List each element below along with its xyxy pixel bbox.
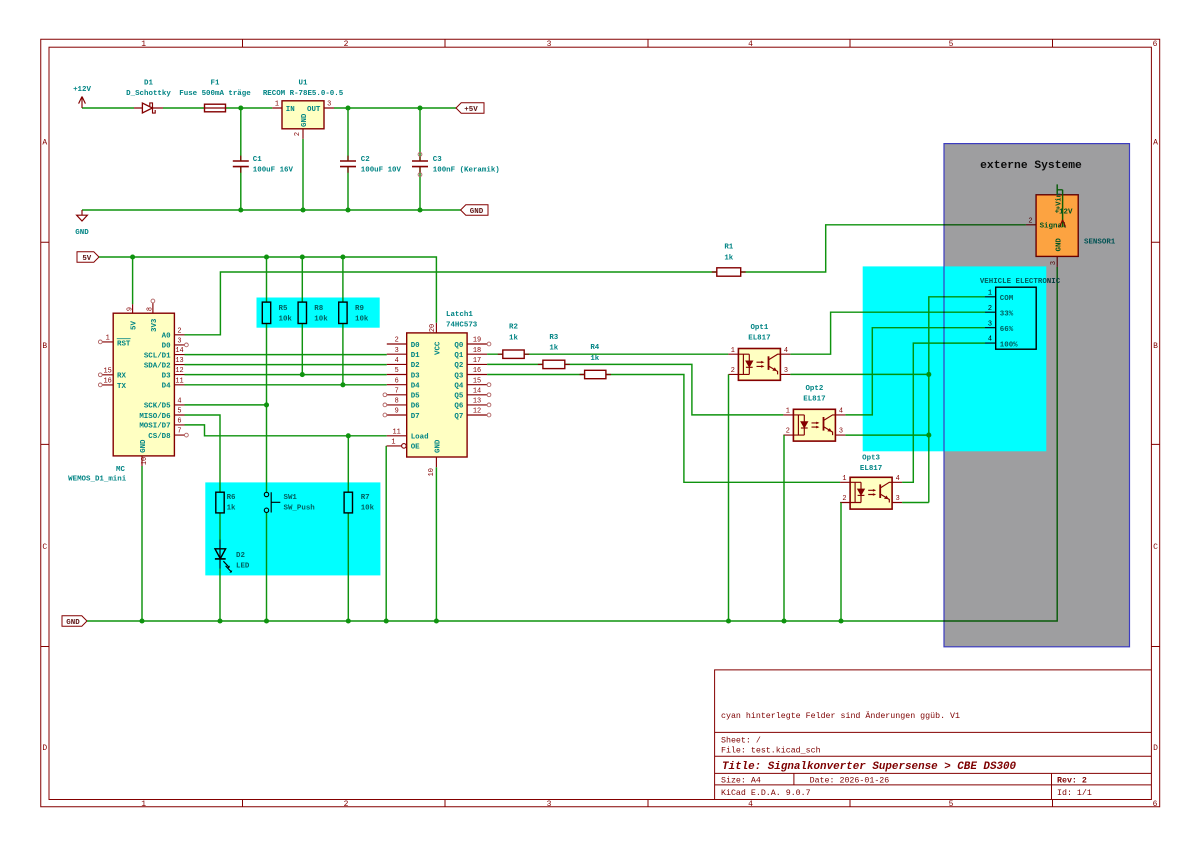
svg-text:1k: 1k [724, 254, 733, 262]
svg-text:10k: 10k [279, 316, 293, 324]
svg-text:12: 12 [175, 367, 183, 375]
resistor R7 [344, 492, 375, 513]
power symbol GND top-left [75, 210, 89, 237]
svg-text:2: 2 [395, 337, 399, 345]
wire A0 net to R1 [185, 225, 1026, 335]
svg-text:5: 5 [177, 408, 181, 416]
wire Opt2 pin3 to COM column [845, 434, 928, 436]
svg-text:3: 3 [395, 347, 399, 355]
global label GND right [461, 205, 488, 216]
svg-text:14: 14 [473, 387, 481, 395]
wire latch Q2 to R3 to Opt2 [487, 364, 783, 415]
svg-text:7: 7 [177, 428, 181, 436]
svg-text:F1: F1 [211, 79, 220, 87]
wire Opt3 pin2 to gnd [840, 503, 842, 622]
svg-text:1: 1 [988, 289, 992, 297]
svg-text:GND: GND [1055, 238, 1063, 252]
svg-text:5: 5 [949, 800, 954, 809]
svg-text:RECOM R-78E5.0-0.5: RECOM R-78E5.0-0.5 [263, 90, 344, 98]
svg-text:Q1: Q1 [454, 352, 463, 360]
svg-text:SW1: SW1 [284, 494, 298, 502]
svg-text:1: 1 [842, 475, 846, 483]
latch left pins [387, 344, 407, 446]
svg-text:3: 3 [547, 800, 552, 809]
svg-text:100uF 16V: 100uF 16V [253, 167, 294, 175]
Opt1 internal LED [738, 354, 749, 374]
power symbol +12V [73, 86, 91, 108]
svg-text:3: 3 [784, 367, 788, 375]
title block outline [715, 670, 1152, 800]
Opt2 phototransistor [823, 417, 825, 431]
connector J vehicle electronic [980, 278, 1061, 349]
svg-text:OE: OE [411, 444, 420, 452]
regulator U1 RECOM R-78E5.0-0.5 [263, 79, 344, 139]
svg-text:Q2: Q2 [454, 362, 463, 370]
Opt3 coupling arrows [868, 490, 875, 494]
svg-text:RST: RST [117, 340, 131, 348]
svg-text:Fuse 500mA träge: Fuse 500mA träge [179, 90, 251, 98]
wire OE down to GND rail [385, 446, 387, 621]
svg-text:3: 3 [327, 101, 331, 109]
resistor R6 [216, 492, 236, 513]
svg-text:12: 12 [473, 408, 481, 416]
svg-text:4: 4 [748, 40, 753, 49]
capacitor C1 [233, 156, 294, 175]
svg-text:3: 3 [988, 320, 992, 328]
svg-text:100%: 100% [1000, 342, 1018, 350]
wire Opt1 pin2 to gnd [728, 374, 730, 621]
svg-text:C3: C3 [433, 156, 442, 164]
zone ticks right [1151, 242, 1159, 646]
cyan highlight vehicle electronic [863, 266, 1047, 451]
svg-text:R9: R9 [355, 305, 364, 313]
svg-text:Sheet: /: Sheet: / [721, 736, 761, 746]
wemos left pins 1 15 16 [102, 342, 113, 385]
svg-text:A: A [42, 139, 47, 148]
svg-text:OUT: OUT [307, 106, 321, 114]
resistor R8 [298, 302, 328, 323]
latch bottom pin 10 [435, 457, 437, 467]
wemos top pins 9 and 8 [133, 303, 153, 313]
wire SW1 bottom to gnd [266, 513, 268, 621]
wire latch GND pin down [435, 467, 437, 621]
Opt1 body [738, 349, 780, 381]
svg-text:1k: 1k [509, 334, 518, 342]
svg-text:EL817: EL817 [748, 334, 770, 342]
svg-text:D6: D6 [411, 403, 420, 411]
resistor R1 [712, 244, 746, 277]
Opt1 coupling arrows [757, 362, 764, 366]
svg-text:D4: D4 [162, 383, 171, 391]
svg-text:100uF 10V: 100uF 10V [361, 167, 402, 175]
svg-text:2: 2 [294, 132, 302, 136]
zone ticks bottom [243, 800, 1053, 807]
wire COM net [929, 297, 985, 503]
svg-text:4: 4 [748, 800, 753, 809]
wire latch Q3 to R4 to Opt3 [487, 375, 840, 483]
junction dots GND rail [139, 618, 144, 623]
title block column lines [794, 773, 1052, 799]
wemos bottom pin 10 [141, 456, 143, 466]
svg-text:Opt1: Opt1 [750, 324, 768, 332]
capacitor C2 [340, 156, 402, 175]
wire latch Q1 to R2 to Opt1 [487, 353, 728, 355]
svg-text:3: 3 [1050, 261, 1058, 265]
svg-text:R4: R4 [590, 344, 599, 352]
svg-text:+Vin: +Vin [1056, 193, 1064, 210]
svg-text:R3: R3 [549, 334, 558, 342]
svg-text:D0: D0 [162, 343, 171, 351]
TITLEBLOCK [715, 670, 1152, 800]
svg-text:cyan hinterlegte Felder sind Ä: cyan hinterlegte Felder sind Änderungen … [721, 711, 960, 721]
svg-text:MISO/D6: MISO/D6 [139, 413, 171, 421]
svg-text:+5V: +5V [464, 106, 478, 114]
Opt1 pin stubs 1 2 4 3 [728, 354, 790, 374]
svg-text:18: 18 [473, 347, 481, 355]
wire C3 drop [419, 108, 421, 210]
sensor SENSOR1 orange body fill [1036, 195, 1078, 257]
svg-text:GND: GND [66, 619, 80, 627]
zone ticks top [243, 39, 1053, 47]
svg-text:5: 5 [949, 40, 954, 49]
sensor SENSOR1 [1026, 184, 1116, 267]
svg-text:7: 7 [395, 387, 399, 395]
svg-text:Q7: Q7 [454, 413, 463, 421]
svg-text:COM: COM [1000, 295, 1014, 303]
svg-text:C: C [42, 543, 47, 552]
svg-text:1: 1 [106, 335, 110, 343]
wire D3 to latch D3 [185, 374, 387, 376]
wire R9 column top [342, 257, 344, 302]
svg-text:GND: GND [470, 208, 484, 216]
svg-text:17: 17 [473, 357, 481, 365]
svg-text:11: 11 [393, 428, 401, 436]
power symbol +12V at sensor [1060, 220, 1066, 227]
svg-text:A0: A0 [162, 333, 171, 341]
svg-text:A: A [1153, 139, 1158, 148]
wire Opt2 pin4 to 66pct [845, 328, 985, 415]
svg-text:R7: R7 [361, 494, 370, 502]
svg-text:10k: 10k [314, 316, 328, 324]
svg-text:9: 9 [126, 307, 134, 311]
svg-text:SENSOR1: SENSOR1 [1084, 239, 1116, 247]
wire C2 drop [347, 108, 349, 210]
wire R8 column top [301, 257, 303, 302]
svg-text:SW_Push: SW_Push [284, 505, 316, 513]
svg-text:1: 1 [141, 40, 146, 49]
sensor pin 1 +Vin [1057, 184, 1062, 227]
svg-text:externe Systeme: externe Systeme [980, 160, 1082, 172]
svg-text:2: 2 [1028, 217, 1032, 225]
svg-text:C1: C1 [253, 156, 262, 164]
svg-text:Opt3: Opt3 [862, 454, 880, 462]
Opt3 body [850, 477, 892, 509]
svg-text:EL817: EL817 [803, 396, 825, 404]
svg-text:3: 3 [896, 495, 900, 503]
diode D1 D_Schottky [126, 79, 171, 113]
svg-text:Q0: Q0 [454, 342, 463, 350]
wire SCK/D5 to R5 column [185, 404, 267, 406]
cyan highlight R6 SW1 R7 D2 [205, 482, 380, 575]
svg-text:WEMOS_D1_mini: WEMOS_D1_mini [68, 476, 127, 484]
fuse F1 [179, 79, 251, 111]
junction dots power section [238, 105, 243, 110]
svg-text:GND: GND [75, 229, 89, 237]
svg-text:Latch1: Latch1 [446, 311, 473, 319]
svg-text:GND: GND [434, 439, 442, 453]
svg-text:D3: D3 [411, 372, 420, 380]
svg-text:D: D [1153, 744, 1158, 753]
svg-text:RX: RX [117, 373, 126, 381]
resistor R9 [339, 302, 369, 323]
svg-text:D2: D2 [411, 362, 420, 370]
svg-text:TX: TX [117, 383, 126, 391]
Opt3 phototransistor [879, 484, 881, 498]
svg-text:D3: D3 [162, 372, 171, 380]
wire Opt3 pin4 to 100pct [902, 343, 985, 482]
svg-text:19: 19 [473, 337, 481, 345]
svg-text:16: 16 [104, 378, 112, 386]
wire Opt1 pin4 to 33pct [790, 312, 985, 354]
wire wemos GND pin down [141, 466, 143, 621]
svg-text:GND: GND [140, 439, 148, 453]
cyan highlight R5 R8 R9 [257, 298, 380, 328]
svg-text:1k: 1k [590, 355, 599, 363]
Opt2 coupling arrows [812, 423, 819, 427]
svg-text:1k: 1k [549, 345, 558, 353]
global label GND bottom-left [62, 616, 87, 627]
svg-text:66%: 66% [1000, 326, 1014, 334]
microcontroller MC WEMOS_D1_mini [68, 299, 188, 484]
svg-text:2: 2 [988, 305, 992, 313]
svg-text:15: 15 [473, 377, 481, 385]
svg-text:R1: R1 [724, 244, 733, 252]
junction dots COM net [926, 372, 931, 377]
svg-text:4: 4 [784, 347, 788, 355]
wire U1 pin2 to gnd [302, 139, 304, 210]
optocoupler Opt1 EL817 [728, 324, 790, 381]
led D2 [215, 540, 250, 573]
svg-text:R2: R2 [509, 324, 518, 332]
svg-text:C2: C2 [361, 156, 370, 164]
svg-text:2: 2 [344, 800, 349, 809]
svg-text:1: 1 [391, 439, 395, 447]
svg-text:74HC573: 74HC573 [446, 321, 478, 329]
svg-text:D1: D1 [144, 79, 153, 87]
Opt3 internal LED [850, 482, 861, 502]
wire R7 bottom to gnd [347, 513, 349, 621]
svg-text:6: 6 [395, 377, 399, 385]
latch Latch1 74HC573 [383, 311, 491, 476]
svg-text:20: 20 [429, 324, 437, 332]
svg-text:B: B [1153, 342, 1158, 351]
wire D4 to latch D4 [185, 384, 387, 386]
Opt2 internal LED [793, 415, 804, 435]
svg-text:11: 11 [175, 377, 183, 385]
svg-text:VEHICLE ELECTRONIC: VEHICLE ELECTRONIC [980, 278, 1061, 286]
global label 5V [77, 252, 99, 263]
wire R5 column down to SW1 [266, 324, 268, 493]
wire latch Load row to R7 [347, 436, 349, 492]
Opt2 body [793, 409, 835, 441]
svg-text:10: 10 [428, 468, 436, 476]
svg-text:D7: D7 [411, 413, 420, 421]
svg-text:4: 4 [839, 408, 843, 416]
wire Opt2 pin2 to gnd [783, 435, 785, 621]
svg-text:15: 15 [104, 367, 112, 375]
svg-text:3: 3 [547, 40, 552, 49]
sensor pin 3 GND [1056, 256, 1058, 267]
svg-text:Opt2: Opt2 [805, 385, 823, 393]
svg-text:R5: R5 [279, 305, 288, 313]
svg-text:Size: A4: Size: A4 [721, 776, 761, 786]
svg-text:D4: D4 [411, 383, 420, 391]
svg-text:1k: 1k [227, 505, 236, 513]
svg-text:4: 4 [988, 336, 992, 344]
svg-text:D: D [42, 744, 47, 753]
svg-text:IN: IN [286, 106, 295, 114]
svg-text:2: 2 [786, 428, 790, 436]
svg-text:D0: D0 [411, 342, 420, 350]
svg-text:33%: 33% [1000, 311, 1014, 319]
optocoupler Opt3 EL817 [840, 454, 902, 509]
junction dots data rows [300, 372, 305, 377]
svg-text:Q5: Q5 [454, 393, 463, 401]
switch SW1 SW_Push [264, 492, 315, 512]
svg-text:Rev: 2: Rev: 2 [1057, 777, 1087, 786]
svg-text:10k: 10k [355, 316, 369, 324]
svg-text:D5: D5 [411, 393, 420, 401]
sensor pin 2 Signal [1026, 224, 1036, 226]
svg-text:Id: 1/1: Id: 1/1 [1057, 788, 1092, 798]
svg-text:2: 2 [842, 495, 846, 503]
svg-text:R8: R8 [314, 305, 323, 313]
global label +5V [456, 103, 484, 114]
svg-text:2: 2 [177, 327, 181, 335]
svg-text:Date: 2026-01-26: Date: 2026-01-26 [810, 777, 890, 786]
capacitor C3 [412, 153, 500, 177]
wire SCL/D1 to latch D1 [185, 354, 387, 356]
wire R5 column top [266, 257, 268, 302]
svg-text:+12V: +12V [1055, 209, 1073, 217]
wire MOSI/D7 to latch Load [185, 425, 387, 436]
svg-text:13: 13 [473, 398, 481, 406]
svg-text:2: 2 [731, 367, 735, 375]
svg-text:MOSI/D7: MOSI/D7 [139, 423, 170, 431]
externe Systeme blue border [944, 144, 1130, 647]
svg-text:U1: U1 [299, 79, 308, 87]
wire C1 drop [240, 108, 242, 210]
svg-text:D_Schottky: D_Schottky [126, 90, 171, 98]
svg-text:8: 8 [395, 398, 399, 406]
wire R9 to D4 row [342, 324, 344, 385]
svg-text:14: 14 [175, 347, 183, 355]
junction dots 5V rail [130, 254, 135, 259]
wire 5V rail [99, 257, 436, 323]
wire Opt3 pin3 to COM column [902, 502, 929, 504]
svg-text:4: 4 [395, 357, 399, 365]
svg-text:1: 1 [141, 800, 146, 809]
svg-text:1: 1 [786, 408, 790, 416]
svg-text:C: C [1153, 543, 1158, 552]
svg-text:EL817: EL817 [860, 465, 882, 473]
latch right pins [467, 344, 487, 415]
svg-text:5V: 5V [82, 255, 91, 263]
svg-text:8: 8 [147, 307, 155, 311]
title block row lines [715, 732, 1152, 785]
svg-text:CS/D8: CS/D8 [148, 433, 171, 441]
Opt2 pin stubs 1 2 4 3 [783, 415, 845, 435]
svg-text:D1: D1 [411, 352, 420, 360]
resistor R5 [262, 302, 292, 323]
svg-text:2: 2 [344, 40, 349, 49]
svg-text:D2: D2 [236, 552, 245, 560]
svg-text:3: 3 [839, 428, 843, 436]
svg-text:Title: Signalkonverter Superse: Title: Signalkonverter Supersense > CBE … [722, 761, 1017, 773]
wire GND rail top [82, 209, 461, 211]
svg-text:100nF (Keramik): 100nF (Keramik) [433, 167, 500, 175]
svg-text:5: 5 [395, 367, 399, 375]
svg-text:4: 4 [177, 398, 181, 406]
wire SDA/D2 to latch D2 [185, 364, 387, 366]
latch top pin 20 [435, 323, 437, 333]
resistor R3 [538, 334, 570, 369]
svg-text:LED: LED [236, 563, 250, 571]
svg-text:GND: GND [301, 113, 309, 127]
svg-text:9: 9 [395, 408, 399, 416]
svg-text:5V: 5V [131, 321, 139, 330]
wire 5V to wemos pin9 [132, 257, 134, 304]
svg-text:R6: R6 [227, 494, 236, 502]
svg-text:Q6: Q6 [454, 403, 463, 411]
svg-text:MC: MC [116, 466, 125, 474]
svg-text:File: test.kicad_sch: File: test.kicad_sch [721, 745, 821, 755]
Opt3 pin stubs 1 2 4 3 [840, 482, 902, 502]
svg-text:10: 10 [141, 457, 149, 465]
svg-text:3: 3 [177, 338, 181, 346]
resistor R4 [580, 344, 611, 379]
wemos right pins [174, 335, 184, 435]
svg-text:4: 4 [896, 475, 900, 483]
svg-text:KiCad E.D.A. 9.0.7: KiCad E.D.A. 9.0.7 [721, 788, 811, 798]
externe Systeme gray sheet box [944, 144, 1130, 647]
svg-text:SCL/D1: SCL/D1 [144, 352, 171, 360]
wire MISO/D6 down to R6 [185, 415, 221, 492]
svg-text:B: B [42, 342, 47, 351]
svg-text:Q4: Q4 [454, 383, 463, 391]
svg-text:1: 1 [731, 347, 735, 355]
wire R6 to LED and LED to gnd [219, 513, 221, 621]
svg-text:6: 6 [177, 418, 181, 426]
svg-text:VCC: VCC [434, 341, 442, 355]
svg-text:3V3: 3V3 [151, 318, 159, 332]
svg-text:SCK/D5: SCK/D5 [144, 403, 171, 411]
svg-text:13: 13 [175, 357, 183, 365]
svg-text:16: 16 [473, 367, 481, 375]
svg-text:+12V: +12V [73, 86, 91, 94]
wire +12V rail segments [82, 107, 456, 109]
wire Opt1 pin3 to COM column [790, 373, 928, 375]
wire R8 to D3 row [301, 324, 303, 375]
svg-text:Q3: Q3 [454, 372, 463, 380]
Opt1 phototransistor [768, 356, 770, 370]
wire GND rail bottom [87, 267, 1057, 621]
resistor R2 [498, 324, 529, 359]
svg-text:10k: 10k [361, 505, 375, 513]
svg-text:Load: Load [411, 434, 429, 442]
svg-text:6: 6 [1153, 800, 1158, 809]
optocoupler Opt2 EL817 [783, 385, 845, 441]
